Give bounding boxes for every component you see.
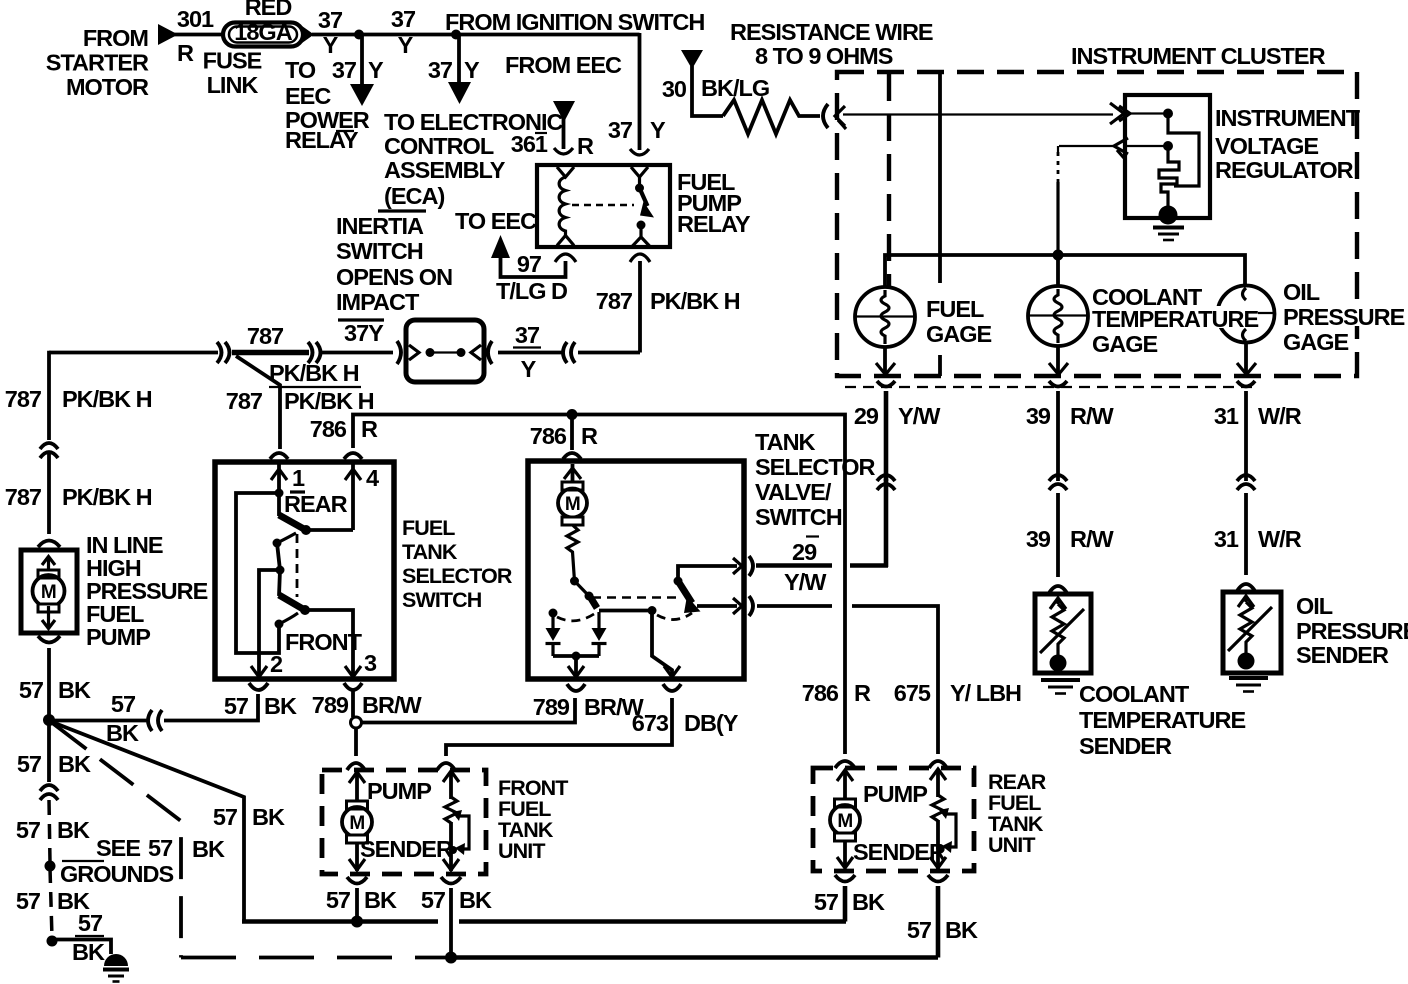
svg-text:T/LG D: T/LG D [496, 278, 567, 304]
IVR input arrows [1110, 103, 1168, 158]
svg-text:R: R [361, 416, 378, 442]
svg-text:SENDER: SENDER [1296, 642, 1389, 668]
svg-text:Y/W: Y/W [898, 403, 941, 429]
svg-text:BK/LG: BK/LG [701, 75, 769, 101]
svg-text:787: 787 [247, 323, 284, 349]
svg-text:57: 57 [17, 751, 42, 777]
svg-text:PK/BK H: PK/BK H [284, 388, 374, 414]
svg-text:R/W: R/W [1070, 403, 1115, 429]
svg-text:W/R: W/R [1258, 403, 1302, 429]
svg-text:SENDER: SENDER [853, 839, 946, 865]
svg-text:FROM: FROM [83, 25, 148, 51]
svg-text:RESISTANCE WIRE: RESISTANCE WIRE [730, 19, 933, 45]
svg-text:786: 786 [310, 416, 347, 442]
svg-text:W/R: W/R [1258, 526, 1302, 552]
coolant temperature gage [1028, 284, 1203, 346]
svg-text:M: M [837, 811, 852, 832]
svg-text:M: M [41, 582, 56, 603]
wire 57 BK dashed (see grounds) diagonal [53, 724, 446, 958]
svg-text:675: 675 [894, 680, 931, 706]
svg-text:31: 31 [1214, 403, 1239, 429]
rear pump motor [830, 770, 927, 868]
coolant gage output wire 39 R/W [1026, 346, 1115, 577]
svg-text:REGULATOR: REGULATOR [1215, 157, 1354, 183]
svg-text:M: M [565, 494, 580, 515]
svg-text:SENDER: SENDER [360, 836, 453, 862]
svg-text:SWITCH: SWITCH [755, 504, 842, 530]
svg-text:787: 787 [226, 388, 263, 414]
gauge feed bus [885, 250, 1245, 288]
svg-text:GAGE: GAGE [1283, 329, 1349, 355]
svg-text:37: 37 [318, 7, 343, 33]
svg-text:RED: RED [245, 0, 292, 20]
svg-text:57: 57 [16, 888, 41, 914]
svg-text:57: 57 [907, 917, 932, 943]
svg-text:Y: Y [323, 32, 339, 58]
svg-text:Y: Y [464, 57, 480, 83]
svg-text:BK: BK [945, 917, 978, 943]
svg-text:18GA: 18GA [234, 19, 292, 45]
wire 37 Y from inertia switch to relay [488, 322, 640, 382]
svg-text:57: 57 [326, 887, 351, 913]
svg-text:BK: BK [192, 836, 225, 862]
svg-text:789: 789 [533, 694, 570, 720]
svg-text:29: 29 [854, 403, 879, 429]
svg-text:39: 39 [1026, 403, 1051, 429]
svg-text:TO EEC: TO EEC [455, 208, 537, 234]
svg-text:FUEL: FUEL [402, 516, 455, 540]
svg-text:FUSE: FUSE [203, 48, 262, 74]
svg-text:Y: Y [398, 32, 414, 58]
svg-text:57: 57 [213, 804, 238, 830]
svg-text:57: 57 [814, 889, 839, 915]
svg-text:TO: TO [285, 57, 316, 83]
svg-text:OIL: OIL [1283, 279, 1320, 305]
svg-text:361: 361 [511, 131, 548, 157]
svg-text:SWITCH: SWITCH [336, 238, 423, 264]
wire 57 BK pump to ground junction [19, 648, 91, 718]
relay linkage dashed [572, 204, 634, 206]
svg-text:INSTRUMENT: INSTRUMENT [1215, 105, 1361, 131]
valve right blade to outputs [657, 556, 753, 620]
svg-text:R: R [581, 423, 598, 449]
wire 37 Y branch to ECA [378, 35, 564, 212]
svg-text:37: 37 [332, 57, 357, 83]
cluster inner dashed divider [887, 74, 891, 287]
selector pin 3 [305, 610, 377, 677]
valve left blade and diodes [546, 577, 657, 661]
svg-text:Y/ LBH: Y/ LBH [950, 680, 1021, 706]
valve/switch box [528, 429, 876, 679]
gage labels over lines [1090, 279, 1405, 357]
selector internals: left loop [236, 493, 279, 653]
svg-text:PUMP: PUMP [367, 778, 431, 804]
coolant temperature sender [1035, 586, 1245, 759]
selector internals: rear contact blade [275, 489, 354, 536]
svg-text:789: 789 [312, 692, 349, 718]
svg-text:PRESSURE: PRESSURE [1296, 618, 1408, 644]
relay coil (left) [557, 167, 574, 246]
svg-text:IMPACT: IMPACT [336, 289, 420, 315]
svg-text:ASSEMBLY: ASSEMBLY [384, 157, 506, 183]
fuel gage output wire 29 Y/W [854, 347, 941, 490]
svg-text:SEE: SEE [96, 835, 140, 861]
svg-text:787: 787 [5, 484, 42, 510]
svg-text:BK: BK [459, 887, 492, 913]
front pump motor [342, 772, 431, 871]
svg-text:(ECA): (ECA) [384, 183, 444, 209]
svg-text:BK: BK [252, 804, 285, 830]
wire IVR input2 to gauge bus [1058, 146, 1114, 253]
rear tank ground wires 57 BK [814, 875, 978, 958]
svg-text:SELECTOR: SELECTOR [402, 564, 513, 588]
svg-text:SELECTOR: SELECTOR [755, 454, 876, 480]
svg-text:Y: Y [650, 117, 666, 143]
svg-text:GAGE: GAGE [1092, 331, 1158, 357]
resistance wire 30 BK/LG [662, 19, 933, 134]
svg-text:57: 57 [421, 887, 446, 913]
svg-text:Y/W: Y/W [784, 569, 827, 595]
svg-text:M: M [349, 813, 364, 834]
valve motor M [558, 464, 587, 581]
fine dashed line below cluster [845, 386, 1252, 388]
wire 37 Y down to fuel pump relay [505, 33, 666, 155]
front tank dashed box [322, 770, 568, 874]
svg-text:REAR: REAR [284, 491, 348, 517]
svg-text:786: 786 [530, 423, 567, 449]
wire 57 BK down from junction to body ground [16, 723, 111, 965]
oil gage output wire 31 W/R [1214, 341, 1302, 575]
svg-text:PK/BK H: PK/BK H [62, 484, 152, 510]
svg-text:37: 37 [428, 57, 453, 83]
svg-text:INERTIA: INERTIA [336, 213, 424, 239]
in line high pressure fuel pump [21, 532, 208, 650]
svg-text:39: 39 [1026, 526, 1051, 552]
svg-text:PUMP: PUMP [86, 624, 150, 650]
node ground junction [43, 714, 55, 726]
svg-text:FUEL: FUEL [926, 296, 984, 322]
selector pin 4 [344, 453, 379, 530]
svg-text:57: 57 [148, 835, 173, 861]
svg-text:37: 37 [391, 6, 416, 32]
svg-text:CONTROL: CONTROL [384, 133, 494, 159]
wire 787 horizontal run [49, 323, 393, 386]
ground symbol (body ground) [103, 954, 129, 982]
svg-text:29: 29 [792, 539, 817, 565]
valve 673 DB/Y pin [652, 611, 681, 692]
svg-text:TEMPERATURE: TEMPERATURE [1092, 306, 1258, 332]
wire 786 R horizontal bus [310, 409, 871, 768]
svg-text:OIL: OIL [1296, 593, 1333, 619]
svg-text:57: 57 [19, 677, 44, 703]
wire 301 R from starter to fuse link [174, 6, 225, 66]
svg-text:97: 97 [517, 251, 542, 277]
svg-text:PK/BK H: PK/BK H [650, 288, 740, 314]
svg-text:R: R [854, 680, 871, 706]
svg-text:BK: BK [58, 751, 91, 777]
svg-text:UNIT: UNIT [988, 833, 1035, 857]
svg-text:VALVE/: VALVE/ [755, 479, 832, 505]
svg-text:PK/BK H: PK/BK H [269, 360, 359, 386]
svg-text:786: 786 [802, 680, 839, 706]
svg-text:FROM IGNITION SWITCH: FROM IGNITION SWITCH [445, 9, 704, 35]
valve linkage dashed [592, 596, 678, 598]
svg-text:BK: BK [72, 939, 105, 965]
wire 37 Y main feed to ignition switch node [312, 6, 704, 58]
svg-text:R: R [177, 40, 194, 66]
wire 57 BK junction to selector pin 2 [49, 683, 297, 746]
wire 37 Y branch to EEC power relay [285, 35, 384, 154]
IVR internals [1153, 109, 1199, 241]
svg-text:OPENS ON: OPENS ON [336, 264, 452, 290]
svg-text:EEC: EEC [285, 83, 331, 109]
rear sender [853, 769, 956, 869]
wire 97 T/LG D to EEC [455, 208, 576, 304]
cluster inner solid divider [938, 74, 942, 376]
svg-text:INSTRUMENT CLUSTER: INSTRUMENT CLUSTER [1071, 43, 1326, 69]
svg-text:BR/W: BR/W [584, 694, 644, 720]
svg-text:GAGE: GAGE [926, 321, 992, 347]
svg-text:SENDER: SENDER [1079, 733, 1172, 759]
oil pressure sender [1223, 584, 1408, 692]
svg-text:LINK: LINK [207, 72, 259, 98]
svg-text:TEMPERATURE: TEMPERATURE [1079, 707, 1245, 733]
svg-text:37: 37 [515, 322, 540, 348]
svg-text:Y: Y [521, 356, 537, 382]
front sender [360, 771, 469, 871]
svg-text:3: 3 [364, 650, 377, 676]
svg-text:Y: Y [368, 57, 384, 83]
svg-text:787: 787 [5, 386, 42, 412]
wire 57 BK ground bus horizontal [242, 916, 846, 928]
svg-text:MOTOR: MOTOR [66, 74, 149, 100]
svg-text:BK: BK [58, 677, 91, 703]
selector switch box [215, 462, 513, 679]
wire 57 BK rear sender ground line [445, 952, 938, 964]
instrument cluster dashed border [837, 43, 1357, 376]
relay K1 fuel pump relay box [537, 165, 751, 247]
selector pin 1 [270, 453, 348, 517]
selector internals: middle column and front blade [273, 533, 363, 655]
svg-text:57: 57 [224, 693, 249, 719]
svg-text:1: 1 [292, 465, 305, 491]
fuse link 18GA (RED) [203, 0, 314, 98]
wire 361 R from EEC to relay coil [511, 101, 594, 159]
wire 57 BK diagonal to front tank ground bus [52, 722, 285, 922]
svg-text:37Y: 37Y [344, 320, 384, 346]
fuel gage [855, 287, 992, 347]
wire to IVR input 1 [843, 113, 1113, 115]
node junction dot A [354, 30, 364, 40]
svg-text:RELAY: RELAY [677, 211, 751, 237]
valve 789 BR/W pin [567, 656, 585, 691]
svg-text:R/W: R/W [1070, 526, 1115, 552]
svg-text:TANK: TANK [755, 429, 816, 455]
svg-text:GROUNDS: GROUNDS [60, 861, 173, 887]
svg-text:301: 301 [177, 6, 214, 32]
svg-text:37: 37 [608, 117, 633, 143]
svg-text:BK: BK [852, 889, 885, 915]
wire 787 PK/BK H branch down to selector (diagonal) [226, 356, 374, 449]
svg-text:PRESSURE: PRESSURE [1283, 304, 1405, 330]
svg-text:VOLTAGE: VOLTAGE [1215, 133, 1318, 159]
svg-text:BK: BK [57, 817, 90, 843]
svg-text:BK: BK [106, 720, 139, 746]
wire 787 PK/BK H from relay down [596, 254, 740, 353]
relay contact (right) [631, 167, 654, 246]
svg-text:FROM EEC: FROM EEC [505, 52, 622, 78]
rear tank dashed box [813, 768, 1047, 871]
svg-text:FRONT: FRONT [285, 629, 363, 655]
svg-text:BR/W: BR/W [362, 692, 422, 718]
svg-text:31: 31 [1214, 526, 1239, 552]
svg-text:57: 57 [16, 817, 41, 843]
front tank ground wires 57 BK [326, 877, 492, 956]
svg-text:8 TO 9 OHMS: 8 TO 9 OHMS [755, 43, 893, 69]
svg-text:PUMP: PUMP [863, 781, 927, 807]
svg-text:57: 57 [78, 910, 103, 936]
svg-text:BK: BK [364, 887, 397, 913]
oil pressure gage [1217, 286, 1275, 343]
svg-text:COOLANT: COOLANT [1079, 681, 1190, 707]
selector pin 2 [251, 570, 283, 677]
svg-text:4: 4 [366, 465, 379, 491]
svg-text:R: R [577, 133, 594, 159]
svg-text:SWITCH: SWITCH [402, 588, 482, 612]
svg-text:787: 787 [596, 288, 633, 314]
svg-text:30: 30 [662, 76, 687, 102]
instrument voltage regulator box [1125, 95, 1361, 218]
svg-text:BK: BK [264, 693, 297, 719]
svg-text:DB(Y: DB(Y [684, 710, 739, 736]
svg-text:2: 2 [270, 651, 283, 677]
node FROM STARTER MOTOR arrow [46, 24, 178, 100]
svg-text:PK/BK H: PK/BK H [62, 386, 152, 412]
svg-text:STARTER: STARTER [46, 50, 149, 76]
wire 787 PK/BK H left vertical [5, 351, 152, 534]
svg-text:UNIT: UNIT [498, 839, 545, 863]
node junction dot B [451, 30, 461, 40]
svg-text:TANK: TANK [402, 540, 458, 564]
inertia switch box [336, 213, 484, 382]
wire 786 R stub into valve/switch [563, 415, 581, 460]
svg-text:57: 57 [111, 691, 136, 717]
